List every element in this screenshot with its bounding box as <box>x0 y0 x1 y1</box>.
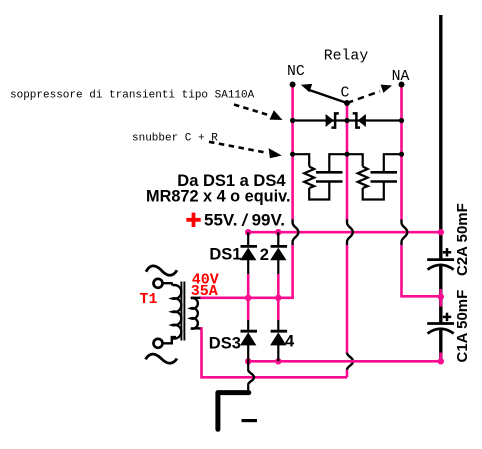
wire: negative rail A (magenta) <box>248 360 441 363</box>
capacitor C2 (snubber 2) plates <box>371 172 398 181</box>
resistor R2 (snubber 2) <box>358 167 368 189</box>
wire: rail B from transformer to relay C (magenta) <box>200 328 348 377</box>
svg-text:DS1: DS1 <box>209 246 241 264</box>
transformer T1: secondary bottom stub <box>191 327 201 329</box>
dashed arrow to snubber row <box>209 142 282 158</box>
svg-text:C2A 50mF: C2A 50mF <box>454 203 471 276</box>
node dot cap midpoint <box>438 294 444 300</box>
transformer T1: primary top terminal circle <box>154 279 163 288</box>
diode DS2 <box>270 246 287 260</box>
transformer T1: primary bottom tilde <box>146 354 178 363</box>
node NA terminal <box>399 82 405 88</box>
wire: negative output lead (thick black) <box>218 393 249 430</box>
node C terminal <box>344 100 350 106</box>
svg-text:MR872 x 4 o equiv.: MR872 x 4 o equiv. <box>146 188 290 206</box>
node dot col2 rail A <box>275 358 281 364</box>
label: + (red plus) <box>186 213 200 227</box>
wire: suppressor row <box>293 119 402 121</box>
transformer T1: primary top lead <box>163 283 172 285</box>
hop: C over negative rail (black jog) <box>347 353 353 370</box>
node dot col1 middle <box>245 295 251 301</box>
node dot cap column bottom <box>438 358 444 364</box>
diode DS4 <box>270 331 287 345</box>
hop: col1 over rail B (black jog) <box>248 370 254 385</box>
hop: C over top rail (black jog) <box>347 219 353 245</box>
transformer T1: primary winding <box>173 285 182 339</box>
transformer T1: core lines <box>181 282 184 341</box>
capacitor C2A <box>427 260 454 270</box>
node: snubber row junction at NC <box>290 152 295 157</box>
plus mark C1A <box>443 313 451 321</box>
hop: NA over top rail (black jog) <box>402 219 408 245</box>
node dot at cap column top rail <box>438 229 444 235</box>
svg-text:C1A 50mF: C1A 50mF <box>454 290 471 363</box>
transformer T1: primary top tilde <box>146 266 177 275</box>
svg-text:DS3: DS3 <box>209 335 241 353</box>
svg-text:35A: 35A <box>191 283 218 300</box>
svg-text:Relay: Relay <box>324 49 369 65</box>
node dot col1 rail A <box>245 358 251 364</box>
wire: C vertical (magenta) <box>346 103 349 377</box>
svg-text:T1: T1 <box>140 291 158 308</box>
svg-text:soppressore di transienti tipo: soppressore di transienti tipo SA110A <box>10 90 255 102</box>
node dot col1 top <box>245 229 251 235</box>
plus mark C2A <box>443 248 451 256</box>
node dot col2 middle <box>275 295 281 301</box>
capacitor C1 (snubber 1) plates <box>316 172 343 181</box>
svg-text:snubber C + R: snubber C + R <box>132 133 218 145</box>
wire: col2 magenta segment <box>277 274 280 320</box>
resistor R1 (snubber 1) <box>304 167 314 189</box>
wire: col2 black segments <box>277 232 279 361</box>
dashed arrow to suppressor row <box>234 105 283 121</box>
node: snubber row junction at C <box>344 152 349 157</box>
capacitor C1A <box>427 324 454 334</box>
wire: NA vertical + link to cap midpoint (magenta) <box>402 85 441 297</box>
suppressor TVS2 (C-NA) <box>353 113 366 127</box>
transformer T1: primary bottom lead <box>163 337 176 343</box>
diode DS1 <box>240 246 257 260</box>
relay arm (solid) to NC <box>301 84 347 103</box>
transformer T1: secondary top stub <box>191 297 201 299</box>
svg-text:55V. / 99V.: 55V. / 99V. <box>204 211 285 230</box>
node: suppressor row junction at C <box>344 118 349 123</box>
transformer T1: secondary winding <box>191 298 198 329</box>
relay arm (dashed) to NA <box>347 85 392 103</box>
wire: middle rail (magenta) <box>200 296 294 299</box>
wire: magenta stub above bottom junction <box>439 353 442 362</box>
wire: NC vertical (magenta) <box>291 85 294 298</box>
suppressor TVS1 (NC-C) <box>326 113 339 127</box>
node: suppressor row junction at NC <box>290 118 295 123</box>
wire: col1 to negative output (black) <box>247 361 249 393</box>
snubber 2 wiring (C-NA) <box>347 154 402 199</box>
svg-text:2: 2 <box>260 246 269 264</box>
transformer T1: primary bottom terminal circle <box>154 339 163 348</box>
hop: NC over top rail (black jog) <box>293 219 299 245</box>
wire: magenta stub at cap midpoint <box>439 289 442 307</box>
node NC terminal <box>290 82 296 88</box>
svg-text:4: 4 <box>285 333 295 351</box>
wire: positive output column (thick black) <box>439 15 442 361</box>
label: minus sign <box>242 419 258 422</box>
svg-text:C: C <box>341 86 350 102</box>
node dot col2 top <box>275 229 281 235</box>
wire: col1 magenta segment <box>247 274 250 320</box>
node: suppressor row junction at NA <box>399 118 404 123</box>
svg-text:NC: NC <box>287 64 305 80</box>
snubber 1 wiring (NC-C) <box>293 154 347 199</box>
wire: col1 black segments <box>247 232 249 361</box>
wire: top positive rail (magenta) <box>248 231 441 234</box>
diode DS3 <box>240 331 257 345</box>
node: snubber row junction at NA <box>399 152 404 157</box>
